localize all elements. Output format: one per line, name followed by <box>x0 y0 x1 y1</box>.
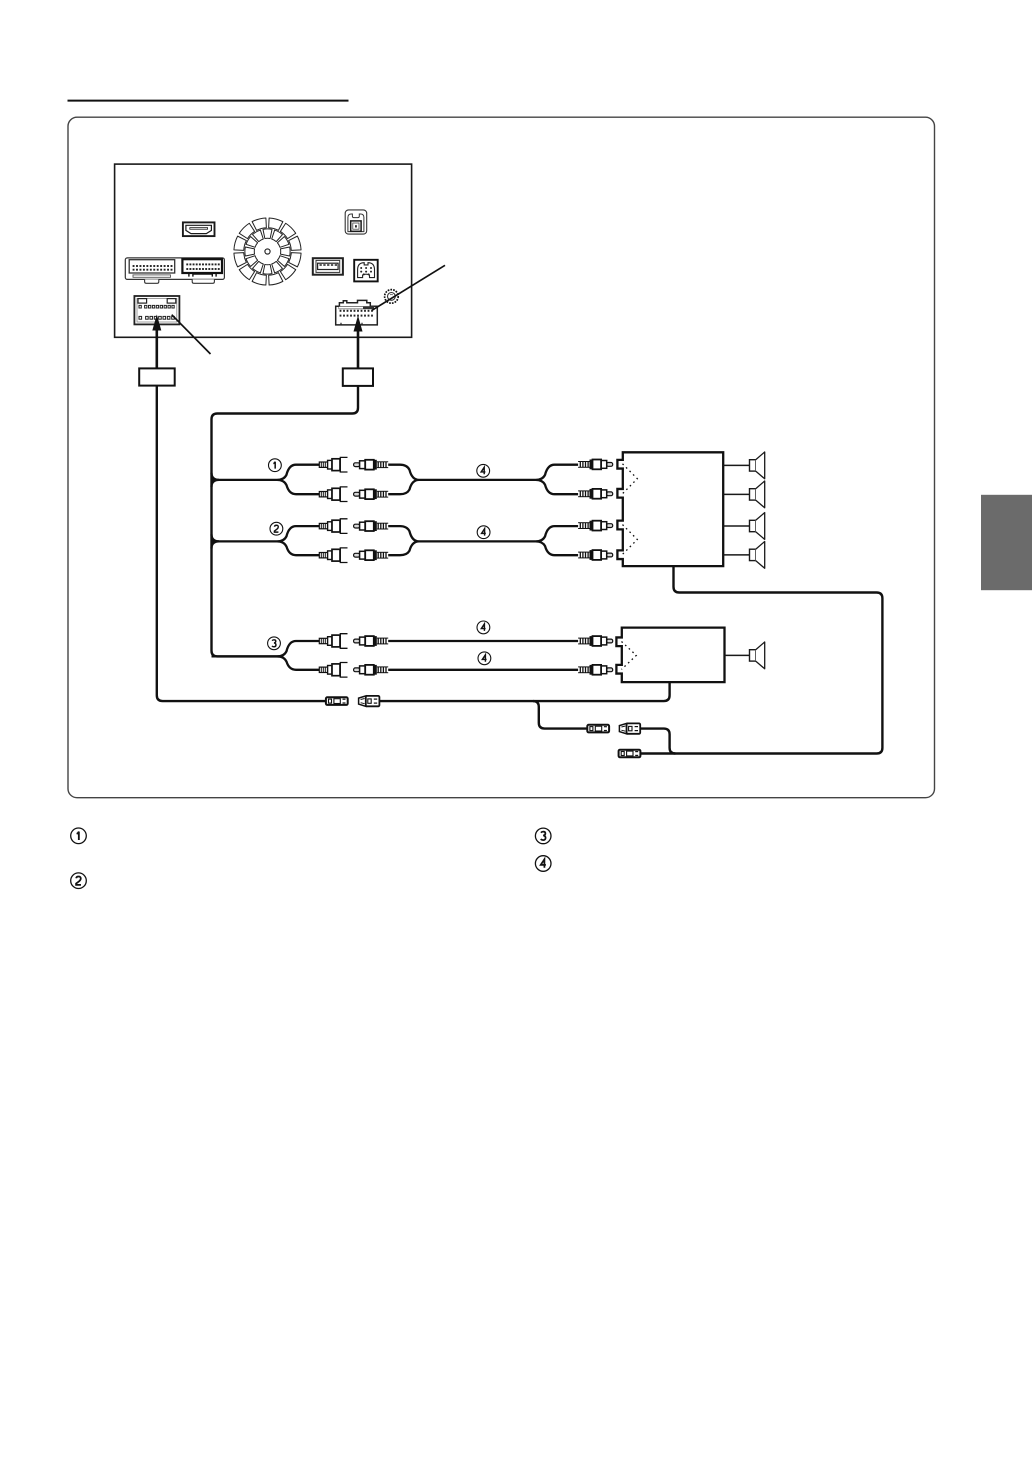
remote lead from spade pair 1 to amp2 with branch <box>379 682 669 701</box>
head unit rear panel <box>115 164 412 337</box>
callout line to connector B <box>372 265 445 310</box>
wire branch row 3 (subwoofer output) <box>212 641 320 670</box>
remote branch down to spade pair 2 <box>533 701 587 729</box>
RCA extension cable row 1 <box>388 465 578 495</box>
RCA jack 1 lower <box>319 487 347 502</box>
spade connector 3 <box>619 750 641 758</box>
power supply connector <box>345 210 367 234</box>
RCA extension cable row 2 <box>388 526 578 555</box>
RCA plug 3 upper <box>354 636 389 646</box>
label 4 row 2 <box>477 526 490 539</box>
speaker 4 <box>750 542 765 569</box>
system remote control spade pair 1 male <box>326 697 348 705</box>
speaker wire from amp2 <box>725 654 750 656</box>
RCA plug to amp row3 upper <box>578 636 613 646</box>
RCA jack 3 lower <box>319 663 347 678</box>
speaker wires from amp1 <box>723 465 749 555</box>
header rule <box>68 100 349 102</box>
antenna jack <box>385 290 399 304</box>
RCA plug to amp row1 upper <box>578 460 613 470</box>
label box B <box>343 368 373 386</box>
rear connector A (bottom left) <box>134 296 179 324</box>
amp1 input chevron lower <box>623 525 638 555</box>
power amplifier 1 (4-channel) <box>617 452 723 566</box>
spade pair 2 female <box>619 723 640 733</box>
RCA cable row 3 upper <box>388 640 578 642</box>
arrow into connector B <box>354 316 363 369</box>
label 3 <box>268 637 281 650</box>
wire branch row 1 (front output) <box>212 473 220 487</box>
wire from box B down and left to RCA trunk <box>212 386 359 657</box>
wire from box A down to remote lead <box>157 386 326 701</box>
RCA jack 2 lower <box>319 548 347 563</box>
legend item 4 <box>535 856 551 872</box>
label 2 <box>270 522 283 535</box>
legend item 2 <box>71 873 87 889</box>
HDMI connector <box>183 222 215 236</box>
speaker 3 <box>750 513 765 540</box>
RCA jack 3 upper <box>319 634 347 649</box>
speaker 2 <box>750 481 765 508</box>
label 4 row 1 <box>477 464 490 477</box>
RCA plug to amp row3 lower <box>578 665 613 675</box>
rear connector B (bottom right) <box>336 300 378 325</box>
arrow into connector A <box>152 315 161 369</box>
RCA plug 3 lower <box>354 665 389 675</box>
RCA plug to amp row2 upper <box>578 521 613 531</box>
callout line to connector A <box>172 315 211 354</box>
speaker 5 (subwoofer) <box>750 642 765 669</box>
USB port <box>313 258 343 275</box>
power amplifier 2 (mono) <box>616 628 724 683</box>
RCA plug to amp row2 lower <box>578 550 613 560</box>
speaker 1 <box>750 452 765 479</box>
label 1 <box>269 459 282 472</box>
amp2 input chevron <box>622 642 637 670</box>
wiring harness connector block <box>125 258 224 283</box>
spade pair 2 male <box>587 725 609 733</box>
page edge gray tab <box>981 495 1032 590</box>
RCA plug to amp row1 lower <box>578 489 613 499</box>
cooling fan grille <box>234 218 301 285</box>
label 4 row 3 lower <box>478 652 491 665</box>
RCA plug 2 upper <box>354 521 389 531</box>
legend item 3 <box>535 828 551 844</box>
RCA jack 1 upper <box>319 457 347 472</box>
RCA plug 2 lower <box>354 550 389 560</box>
amp1 input chevron upper <box>623 464 638 494</box>
RCA cable row 3 lower <box>388 669 578 671</box>
S-video DIN port <box>354 260 378 282</box>
RCA plug 1 upper <box>354 460 389 470</box>
diagram outer frame <box>68 117 935 798</box>
label 4 row 3 upper <box>477 621 490 634</box>
remote lead from spade pair 2 down to amp1 line <box>640 729 675 754</box>
system remote control spade pair 1 female <box>359 696 380 706</box>
wire branch row 2 (rear output) <box>212 534 220 548</box>
remote lead from amp1 to spade 3 <box>640 566 882 753</box>
label box A <box>139 368 175 385</box>
RCA jack 2 upper <box>319 519 347 534</box>
legend item 1 <box>71 828 87 844</box>
RCA plug 1 lower <box>354 489 389 499</box>
